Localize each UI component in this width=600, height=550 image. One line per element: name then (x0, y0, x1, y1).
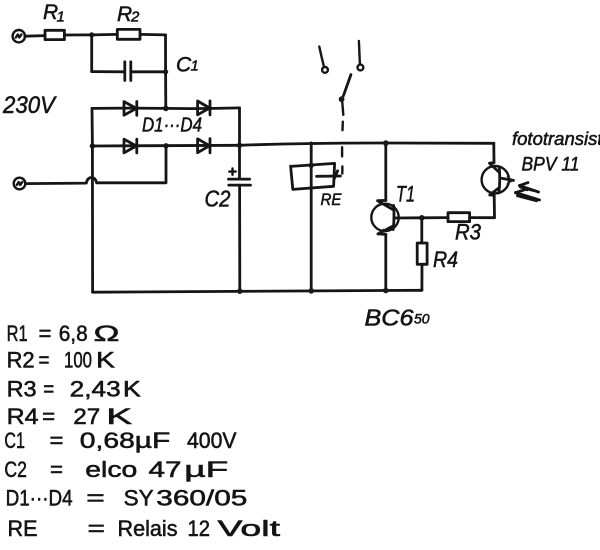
svg-text:2: 2 (130, 9, 140, 26)
svg-text:RE: RE (321, 190, 343, 209)
svg-text:1: 1 (57, 9, 65, 26)
svg-text:T1: T1 (396, 182, 415, 207)
svg-text:C1=0,68µF400V: C1=0,68µF400V (4, 428, 236, 453)
svg-text:RE=Relais12Volt: RE=Relais12Volt (8, 516, 281, 541)
svg-text:R3: R3 (455, 220, 482, 245)
svg-text:R1=6,8Ω: R1=6,8Ω (7, 321, 120, 346)
svg-text:D1···D4=SY360/05: D1···D4=SY360/05 (6, 486, 248, 511)
svg-text:fototransistor: fototransistor (512, 128, 600, 149)
svg-text:C2=elco47µF: C2=elco47µF (4, 457, 228, 482)
svg-text:D1···D4: D1···D4 (142, 115, 202, 137)
svg-text:1: 1 (191, 58, 199, 75)
svg-text:C2: C2 (205, 186, 231, 212)
svg-text:230V: 230V (2, 92, 57, 119)
svg-text:R: R (117, 3, 132, 26)
svg-text:R4: R4 (433, 247, 458, 272)
svg-text:R3=2,43K: R3=2,43K (7, 377, 142, 402)
svg-text:R2=100K: R2=100K (7, 348, 116, 373)
svg-text:R4=27K: R4=27K (7, 404, 133, 429)
svg-text:BPV 11: BPV 11 (522, 155, 580, 176)
svg-text:BC6: BC6 (365, 305, 414, 331)
svg-text:50: 50 (414, 311, 430, 327)
